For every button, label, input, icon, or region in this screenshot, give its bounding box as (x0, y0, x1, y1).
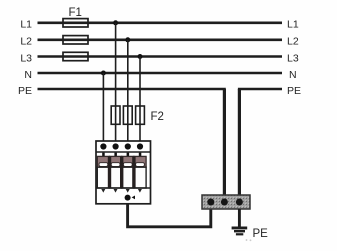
SPD base divider (96, 187, 151, 189)
svg-text:F1: F1 (69, 7, 82, 19)
wire tap L2 to F2 (127, 40, 129, 141)
SPD base contact 1 (101, 189, 105, 193)
surge protective device SPD (4-pole) (96, 141, 151, 204)
wire PE right segment drop to busbar (238, 89, 241, 196)
SPD module 2 body (110, 167, 122, 188)
svg-text:L3: L3 (287, 52, 299, 64)
fuse F1 pole L2 (63, 36, 88, 44)
SPD terminal 4 (L3) (137, 143, 143, 149)
SPD plug tab 1 (102, 153, 105, 157)
fuse F1 pole L1 (63, 19, 88, 27)
wire busbar to earth (238, 209, 241, 227)
wire bus PE (right segment) (238, 88, 282, 91)
SPD module 2 head (110, 156, 122, 167)
SPD plug tab 3 (127, 153, 130, 157)
svg-text:L2: L2 (287, 36, 299, 48)
wire through F2 L1 (115, 106, 117, 124)
svg-text:L1: L1 (20, 19, 32, 31)
SPD top terminal strip divider (96, 151, 151, 153)
wire bus PE (left segment) (38, 88, 226, 91)
svg-text:L3: L3 (20, 52, 32, 64)
SPD base contact 4 (138, 189, 142, 193)
svg-text:PE: PE (18, 85, 32, 97)
wire through F2 L3 (139, 106, 141, 124)
PE busbar (202, 195, 250, 209)
wire tap L1 to F2 (115, 23, 117, 141)
fuse F2 pole L2 (123, 106, 132, 124)
svg-text:F2: F2 (151, 111, 164, 123)
wire tap N to SPD (102, 73, 104, 141)
SPD module 4 head (134, 156, 146, 167)
ground (earth symbol) (232, 227, 248, 236)
SPD ground terminal (125, 195, 131, 201)
svg-text:PE: PE (253, 228, 269, 240)
SPD ground terminal mark (132, 196, 135, 200)
wire bus L3 (38, 55, 283, 58)
SPD inter-module separator 1 (108, 156, 111, 188)
fuse F2 pole L1 (111, 106, 120, 124)
busbar terminal 1 (207, 199, 214, 206)
SPD base contact 2 (114, 189, 118, 193)
SPD housing (96, 141, 151, 204)
junction on L1 (113, 20, 118, 25)
junction on L3 (138, 54, 143, 59)
wire through F2 L2 (127, 106, 129, 124)
SPD plug tab 2 (114, 153, 117, 157)
SPD terminal 2 (L1) (113, 143, 119, 149)
SPD module 3 head (122, 156, 134, 167)
SPD module 3 body (122, 167, 134, 188)
wire bus L1 (38, 21, 283, 24)
SPD module 4 body (134, 167, 146, 188)
SPD inter-module separator 2 (120, 156, 123, 188)
SPD terminal 3 (L2) (125, 143, 131, 149)
svg-text:PE: PE (287, 85, 301, 97)
busbar terminal 3 (236, 199, 243, 206)
wire bus N (38, 72, 283, 75)
junction on L2 (125, 37, 130, 42)
SPD module 1 body (97, 167, 109, 188)
fuse F2 pole L3 (136, 106, 145, 124)
svg-text:L2: L2 (20, 36, 32, 48)
wire SPD ground to PE busbar (128, 204, 211, 227)
svg-text:N: N (24, 69, 32, 81)
SPD module 1 head (97, 156, 109, 167)
faint print artifact dots (246, 239, 248, 241)
SPD base contact 3 (126, 189, 130, 193)
wire tap L3 to F2 (139, 57, 141, 142)
wire bus L2 (38, 38, 283, 41)
busbar terminal 2 (221, 199, 228, 206)
SPD plug tab 4 (139, 153, 142, 157)
svg-text:N: N (289, 69, 297, 81)
svg-text:L1: L1 (287, 19, 299, 31)
SPD terminal 1 (N) (100, 143, 106, 149)
SPD inter-module separator 3 (132, 156, 135, 188)
wire PE left segment drop to busbar (223, 89, 226, 196)
fuse F1 pole L3 (63, 52, 88, 60)
junction on N (101, 71, 106, 76)
